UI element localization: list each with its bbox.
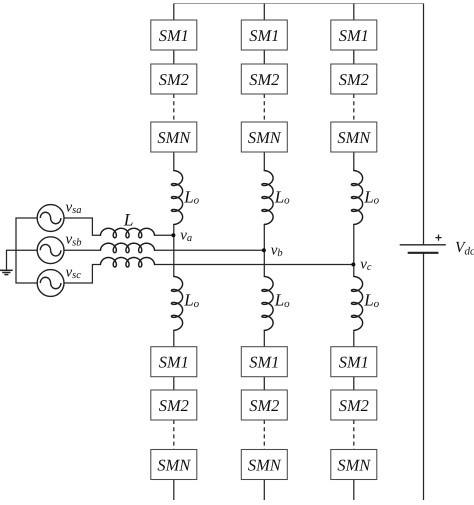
submodule SM1 lower arm phase c (331, 347, 377, 377)
svg-text:L: L (123, 210, 134, 230)
wire: phase c SM1-SM2 link (353, 50, 355, 64)
svg-text:SM2: SM2 (339, 396, 369, 415)
inductor Lo upper arm phase a (171, 171, 182, 225)
submodule SM2 lower arm phase b (241, 390, 287, 420)
svg-text:SM2: SM2 (159, 396, 189, 415)
wire: phase a lower dashed link SM2-SMN (173, 420, 175, 450)
polarity plus sign (435, 235, 441, 241)
wire: phase a lower SM1-SM2 link (173, 377, 175, 390)
svg-text:SM1: SM1 (159, 26, 189, 45)
inductor Lo upper arm phase b (262, 171, 273, 225)
submodule SM1 upper arm phase a (151, 20, 197, 50)
AC source vsa (37, 205, 64, 232)
svg-text:SMN: SMN (248, 456, 282, 475)
svg-text:SMN: SMN (337, 456, 371, 475)
inductor Lo lower arm phase c (351, 277, 362, 331)
wire: phase c lower SMN to bottom rail (353, 480, 355, 501)
wire: inductor L phase b to node vb (155, 249, 265, 251)
ground (0, 270, 13, 274)
node vc junction dot (351, 263, 355, 267)
inductor Lo upper arm phase c (351, 171, 362, 225)
wire: top DC rail (174, 3, 424, 5)
svg-text:SM1: SM1 (339, 26, 369, 45)
submodule SM2 upper arm phase a (151, 64, 197, 94)
wire: source vsb to inductor L (phase b) (64, 249, 101, 251)
inductor L phase b (101, 243, 155, 253)
wire: phase b SM1-SM2 link (263, 50, 265, 64)
svg-text:SM2: SM2 (249, 396, 279, 415)
wire: phase c lower coil to lower SM1 (353, 330, 355, 346)
submodule SM2 lower arm phase c (331, 390, 377, 420)
wire: inductor L phase c to node vc (155, 264, 354, 266)
wire: phase b lower SM1-SM2 link (263, 377, 265, 390)
svg-text:SMN: SMN (337, 128, 371, 147)
wire: phase a upper arm stub from rail to SM1 (173, 4, 175, 21)
wire: phase c upper dashed link SM2-SMN (353, 94, 355, 122)
AC source vsc (37, 270, 64, 297)
submodule SMN lower arm phase b (241, 450, 287, 480)
svg-text:SM2: SM2 (159, 70, 189, 89)
wire: phase b lower dashed link SM2-SMN (263, 420, 265, 450)
wire: phase b lower SMN to bottom rail (263, 480, 265, 501)
submodule SMN upper arm phase c (331, 122, 377, 152)
submodule SM2 upper arm phase c (331, 64, 377, 94)
submodule SM1 lower arm phase b (241, 347, 287, 377)
wire: phase a upper dashed link SM2-SMN (173, 94, 175, 122)
svg-text:SMN: SMN (157, 128, 191, 147)
wire: phase a SMN to upper arm inductor (173, 152, 175, 171)
wire: phase b lower coil to lower SM1 (263, 330, 265, 346)
node va junction dot (171, 233, 175, 237)
node vb junction dot (262, 248, 266, 252)
inductor Lo lower arm phase b (262, 277, 273, 331)
DC source Vdc battery: short negative plate (408, 252, 439, 254)
svg-text:SMN: SMN (157, 456, 191, 475)
wire: phase a SM1-SM2 link (173, 50, 175, 64)
svg-text:SM2: SM2 (339, 70, 369, 89)
submodule SM2 lower arm phase a (151, 390, 197, 420)
wire: source vsc to inductor L (phase c) (64, 265, 101, 284)
submodule SM1 upper arm phase c (331, 20, 377, 50)
submodule SM1 upper arm phase b (241, 20, 287, 50)
inductor L phase a (101, 228, 155, 238)
wire: phase b leg center (upper coil to lower coil through node vb) (263, 224, 265, 276)
svg-text:SMN: SMN (248, 128, 282, 147)
wire: source vsa to inductor L (phase a) (64, 218, 101, 235)
wire: phase a leg center (upper coil to lower coil through node va) (173, 224, 175, 276)
wire: DC bus negative from battery - plate to bottom (423, 253, 425, 500)
svg-text:SM1: SM1 (339, 353, 369, 372)
wire: phase c lower SM1-SM2 link (353, 377, 355, 390)
DC source Vdc battery: long positive plate (400, 244, 446, 246)
svg-text:SM1: SM1 (249, 353, 279, 372)
wire: phase b upper arm stub from rail to SM1 (263, 4, 265, 21)
wire: phase b SMN to upper arm inductor (263, 152, 265, 171)
wire: phase b upper dashed link SM2-SMN (263, 94, 265, 122)
inductor L phase c (101, 258, 155, 268)
wire: phase a lower coil to lower SM1 (173, 330, 175, 346)
submodule SMN upper arm phase b (241, 122, 287, 152)
AC source vsb (37, 237, 64, 264)
submodule SMN upper arm phase a (151, 122, 197, 152)
wire: phase c upper arm stub from rail to SM1 (353, 4, 355, 21)
wire: phase c leg center (upper coil to lower coil through node vc) (353, 224, 355, 276)
svg-text:SM1: SM1 (249, 26, 279, 45)
wire: DC bus positive from rail to battery + plate (423, 4, 425, 245)
wire: phase c SMN to upper arm inductor (353, 152, 355, 171)
wire: inductor L phase a to node va (155, 234, 174, 236)
wire: neutral to ground branch (7, 250, 38, 270)
submodule SMN lower arm phase a (151, 450, 197, 480)
submodule SM1 lower arm phase a (151, 347, 197, 377)
svg-text:SM1: SM1 (159, 353, 189, 372)
inductor Lo lower arm phase a (171, 277, 182, 331)
wire: left neutral bus joining the three sources (16, 218, 37, 283)
wire: phase a lower SMN to bottom rail (173, 480, 175, 501)
submodule SM2 upper arm phase b (241, 64, 287, 94)
svg-text:SM2: SM2 (249, 70, 279, 89)
submodule SMN lower arm phase c (331, 450, 377, 480)
wire: phase c lower dashed link SM2-SMN (353, 420, 355, 450)
